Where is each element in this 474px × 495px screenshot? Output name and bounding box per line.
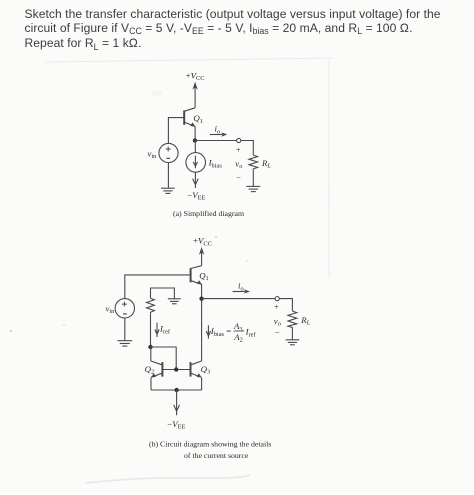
wire Q1 emitter to output node (a) [194,127,196,141]
wire Q2 emitter down (b) [150,378,152,391]
wire Q1 emitter to output node (b) [201,284,203,298]
wire diode connection to bases (b) [151,347,177,370]
label Q1 (b) [199,270,209,282]
scan streak vertical [328,58,331,278]
node: base wire dot (b) [174,367,178,371]
label - below vo (b) [275,329,280,338]
terminal: open circle output (b) [275,297,279,301]
scan speck 1 [10,330,12,332]
wire resistor top to ground (b) [151,288,175,299]
transistor Q2 (b) [151,361,163,378]
label vin (b) [106,303,116,315]
node: output node dot (a) [193,138,197,142]
label Iref (b) [159,324,171,336]
wire terminal to RL top (a) [241,141,254,156]
current arrow io (a) [210,134,223,136]
svg-text:+: + [274,303,279,312]
svg-text:Q2: Q2 [145,364,155,376]
svg-text:(a) Simplified diagram: (a) Simplified diagram [173,209,244,218]
label Q1 (a) [193,113,203,125]
scan streak bottom wavy [85,475,250,483]
resistor RL (a) [249,155,258,170]
label +VCC (a) [186,70,205,82]
scan smudge [151,90,163,96]
caption (b) line 2 [184,451,249,460]
svg-text:io: io [215,124,221,136]
node: diode connection dot (b) [148,345,152,349]
label - below vo (a) [236,173,241,182]
label io (b) [238,281,244,293]
label + above vo (a) [236,145,241,154]
svg-text:Q3: Q3 [201,364,211,376]
terminal: open circle output (a) [237,138,241,142]
svg-text:vin: vin [106,303,116,315]
caption (b) line 1 [149,439,271,448]
svg-text:io: io [238,281,244,293]
label RL (a) [261,158,271,170]
wire output node to terminal (a) [195,140,237,142]
ground below vin (a) [161,188,175,193]
label vin (a) [148,148,158,160]
svg-text:vin: vin [148,148,158,160]
ground below RL (b) [286,340,300,345]
source vin (a) [159,143,178,162]
svg-text:+: + [236,145,241,154]
caption (a) [173,209,244,218]
node: rail dot (b) [174,388,178,392]
ground below vin (b) [117,341,132,346]
svg-text:−: − [236,173,241,182]
wire rail to VEE arrow (b) [174,390,180,415]
VCC supply arrow (a) [194,84,196,108]
svg-text:−VEE: −VEE [167,419,185,431]
label vo (b) [274,316,281,328]
svg-text:(b) Circuit diagram showing th: (b) Circuit diagram showing the details [149,439,271,448]
label Ibias (a) [208,158,223,170]
resistor RL (b) [288,311,297,328]
svg-text:−: − [275,329,280,338]
svg-text:RL: RL [300,315,310,327]
wire emitter rail (b) [151,389,202,391]
svg-text:vo: vo [235,158,242,170]
scan speck 4 [246,260,247,261]
svg-text:+VCC: +VCC [186,70,205,82]
label +VCC (b) [193,236,212,248]
label RL (b) [300,315,310,327]
VCC supply arrow (b) [201,249,203,266]
wire RL to ground (b) [291,328,293,340]
label -VEE (b) [167,419,185,431]
svg-text:A2: A2 [233,332,243,344]
resistor Iref (b) [147,298,155,313]
fraction bar A3/A2 (b) [234,330,245,332]
wire Q3 emitter down (b) [201,378,203,391]
svg-text:Q1: Q1 [193,113,203,125]
label -VEE (a) [187,190,205,202]
scan streak diagonal top [45,58,333,62]
transistor Q3 (b) [191,361,202,378]
svg-text:Q1: Q1 [199,270,209,282]
problem statement text [25,7,455,52]
label Ibias = A3/A2 Iref (b) [210,321,257,343]
wire Q1 base to vin (b) [125,275,191,299]
label io (a) [215,124,221,136]
wire output node to terminal (b) [202,298,276,300]
wire dot to Q2 collector (b) [150,347,152,361]
svg-text:vo: vo [274,316,281,328]
svg-text:Ibias =: Ibias = [210,326,231,338]
source vin (b) [115,299,134,318]
wire Ibias to VEE arrow (a) [193,172,199,188]
svg-text:Ibias: Ibias [208,158,223,170]
label + above vo (b) [274,303,279,312]
current arrow Ibias (b) [206,325,210,338]
label vo (a) [235,158,242,170]
ground below RL (a) [246,186,260,191]
ground at resistor top (b) [168,299,181,304]
label Q3 (b) [201,364,211,376]
svg-text:RL: RL [261,158,271,170]
svg-text:+VCC: +VCC [193,236,212,248]
wire terminal to RL (b) [279,299,292,312]
transistor Q1 (b) [191,266,202,285]
svg-text:Iref: Iref [245,327,257,339]
svg-text:Iref: Iref [159,324,171,336]
scan speck 2 [63,324,64,325]
transistor Q1 (a) [184,108,195,127]
wire Q1 base to vin (a) [168,118,184,144]
wire resistor bottom to mirror (b) [150,314,152,347]
svg-text:−VEE: −VEE [187,190,205,202]
label Q2 (b) [145,364,155,376]
node: output node dot (b) [199,297,203,301]
scan speck 3 [215,236,216,237]
wire RL to ground (a) [252,170,254,186]
wire vin to ground (b) [124,318,126,341]
current arrow Iref (b) [155,323,159,337]
wire output node to Ibias source (a) [194,141,196,153]
current arrow io (b) [233,291,246,293]
svg-text:of the current source: of the current source [184,451,249,460]
current source Ibias (a) [186,153,206,173]
wire Q2 base to Q3 base (b) [162,369,190,371]
wire vin to ground (a) [167,163,169,188]
wire output node down to Q3 collector (b) [201,299,203,361]
